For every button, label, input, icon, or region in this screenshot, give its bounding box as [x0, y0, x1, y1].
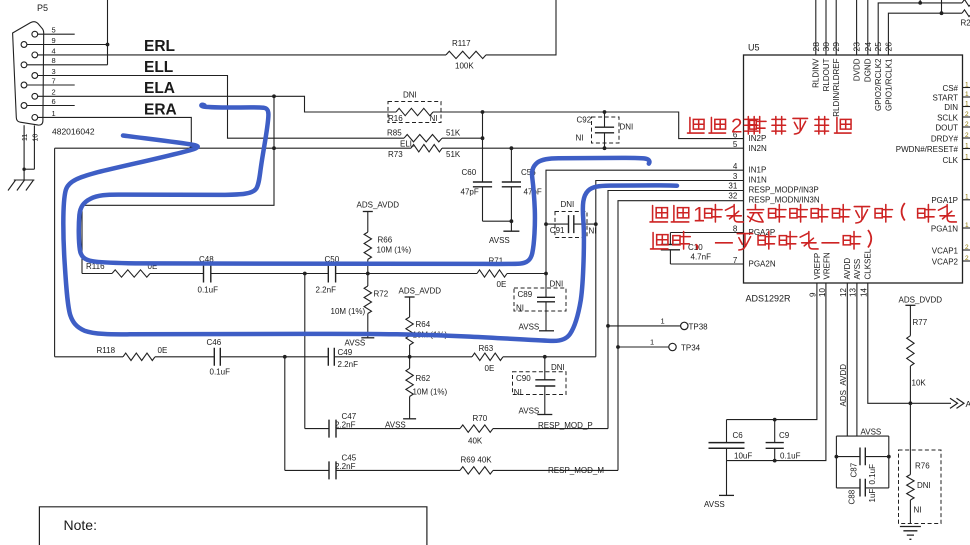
pin 7 stub wire — [27, 84, 75, 86]
junction top-right net2 — [940, 11, 944, 15]
test point TP34 — [618, 346, 669, 348]
wire ELA row (pin2) — [38, 96, 396, 112]
wire row to R63 — [410, 356, 472, 358]
resistor R70 40K — [460, 425, 493, 432]
test point TP38 — [608, 325, 681, 327]
connector pin 7 circle — [21, 82, 27, 88]
svg-text:0E: 0E — [485, 364, 495, 373]
svg-text:C92: C92 — [577, 116, 592, 125]
junction C60/C56 bottom — [510, 219, 514, 223]
svg-text:C90: C90 — [516, 374, 531, 383]
svg-text:DVDD: DVDD — [853, 58, 862, 81]
svg-text:IN1P: IN1P — [749, 166, 767, 175]
svg-text:CLKSEL: CLKSEL — [864, 248, 873, 279]
svg-text:8: 8 — [52, 56, 56, 65]
pin CLK stub wire — [963, 159, 970, 161]
red annotation line 2 — [650, 206, 667, 222]
connector pin 4 circle — [32, 52, 38, 58]
svg-text:R76: R76 — [915, 462, 930, 471]
svg-text:C89: C89 — [518, 290, 533, 299]
svg-text:47pF: 47pF — [461, 188, 479, 197]
wire long row to IN2N — [55, 147, 411, 149]
pin 29 RLDIN/RLDREF wire — [835, 0, 837, 55]
svg-text:GPIO1/RCLK1: GPIO1/RCLK1 — [884, 58, 893, 111]
pin 28 RLDINV wire — [815, 0, 817, 55]
svg-text:R69 40K: R69 40K — [461, 456, 493, 465]
svg-text:4: 4 — [733, 162, 738, 171]
svg-text:C6: C6 — [733, 431, 744, 440]
junction C9 top — [773, 418, 777, 422]
resistor R116 0E — [112, 270, 150, 277]
svg-text:1: 1 — [965, 142, 969, 149]
svg-text:25: 25 — [873, 42, 883, 52]
svg-text:NI: NI — [514, 388, 522, 397]
connector pin 3 circle — [32, 73, 38, 79]
svg-text:5: 5 — [52, 26, 56, 35]
wire ERL row (pin4 to R117) — [38, 54, 446, 56]
svg-text:482016042: 482016042 — [52, 127, 95, 137]
svg-text:4: 4 — [52, 46, 56, 55]
ground AVSS (C6) — [719, 494, 734, 496]
svg-text:CLK: CLK — [942, 156, 958, 165]
svg-text:U5: U5 — [748, 43, 760, 53]
junction pin9/top-line — [106, 43, 110, 47]
svg-text:24: 24 — [863, 42, 873, 52]
junction R77/CLKSEL — [909, 401, 913, 405]
svg-text:ERA: ERA — [144, 101, 177, 118]
connector pin 9 circle — [21, 42, 27, 48]
resistor R77 10K — [909, 305, 911, 335]
svg-text:2: 2 — [965, 255, 969, 262]
wire CLKSEL net — [868, 283, 951, 403]
capacitor C47 2.2nF — [305, 428, 329, 430]
svg-text:1: 1 — [965, 81, 969, 88]
wire R71 to IN1P vertical — [507, 273, 546, 275]
junction TP34 — [616, 345, 620, 349]
svg-text:DIN: DIN — [944, 103, 958, 112]
svg-text:AVSS: AVSS — [385, 420, 406, 429]
svg-text:C10: C10 — [688, 243, 703, 252]
svg-text:R73: R73 — [388, 150, 403, 159]
off-page arrow — [950, 398, 964, 408]
decoupling network C87/C88 rails — [836, 435, 888, 437]
svg-text:51K: 51K — [446, 150, 461, 159]
svg-text:2: 2 — [731, 115, 742, 138]
svg-text:DNI: DNI — [917, 481, 931, 490]
resistor R71 0E — [477, 270, 507, 277]
wire AVSS pin13 — [856, 283, 858, 436]
capacitor C49 2.2nF — [285, 356, 329, 358]
svg-text:C88: C88 — [847, 489, 856, 504]
svg-text:R72: R72 — [374, 290, 389, 299]
svg-text:VREFN: VREFN — [822, 252, 831, 279]
svg-text:ERL: ERL — [144, 38, 175, 55]
svg-text:2: 2 — [965, 132, 969, 139]
svg-text:A: A — [966, 399, 970, 409]
svg-text:ELL: ELL — [400, 140, 415, 149]
svg-text:AVSS: AVSS — [345, 338, 366, 347]
svg-text:3: 3 — [52, 67, 56, 76]
svg-text:R118: R118 — [97, 346, 116, 355]
connector P5 shell — [13, 22, 44, 125]
svg-text:9: 9 — [808, 292, 817, 297]
resistor R66 10M — [367, 212, 369, 233]
svg-text:51K: 51K — [446, 128, 461, 137]
svg-text:DNI: DNI — [561, 200, 575, 209]
wire R118 row — [55, 356, 123, 358]
svg-text:NI: NI — [516, 304, 524, 313]
capacitor C56 47pF — [510, 148, 512, 182]
capacitor C45 2.2nF — [285, 469, 329, 471]
svg-text:TP38: TP38 — [689, 322, 709, 331]
pin 25 GPIO2/RCLK2 wire — [878, 3, 962, 55]
wire IN1N net — [596, 181, 744, 357]
svg-text:1: 1 — [965, 153, 969, 160]
resistor R118 0E — [123, 353, 155, 360]
junction ground join — [22, 168, 25, 171]
wire RESP_MODN/IN3N net — [618, 201, 744, 471]
svg-text:2.2nF: 2.2nF — [338, 360, 359, 369]
pin DIN stub wire — [963, 106, 970, 108]
svg-text:R70: R70 — [473, 414, 488, 423]
connector pin 5 circle — [32, 31, 38, 37]
junction R66/R72 on row — [366, 272, 370, 276]
capacitor C88 1uF — [836, 487, 888, 489]
svg-text:R77: R77 — [913, 318, 928, 327]
svg-text:ADS1292R: ADS1292R — [746, 294, 792, 304]
svg-text:2.2nF: 2.2nF — [316, 286, 337, 295]
junction row273/C47 vertical — [303, 272, 307, 276]
junction R73row/C56 — [510, 146, 514, 150]
resistor R63 0E — [472, 353, 503, 360]
svg-text:RESP_MOD_M: RESP_MOD_M — [548, 466, 604, 475]
svg-text:NI: NI — [430, 114, 438, 123]
svg-text:IN1N: IN1N — [749, 176, 767, 185]
svg-text:R16: R16 — [388, 114, 403, 123]
svg-text:2: 2 — [965, 121, 969, 128]
wire ELA vertical down — [82, 96, 274, 273]
junction top-right net1 — [918, 1, 922, 5]
pin CS# stub wire — [963, 87, 970, 89]
junction C87 right — [887, 455, 891, 459]
svg-text:13: 13 — [848, 288, 857, 297]
svg-text:12: 12 — [839, 288, 848, 297]
svg-text:28: 28 — [811, 42, 821, 52]
capacitor C6 10uF — [726, 420, 728, 443]
junction R16row/C92 — [603, 110, 607, 114]
svg-text:2: 2 — [965, 111, 969, 118]
svg-text:R63: R63 — [479, 344, 494, 353]
svg-text:100K: 100K — [455, 62, 474, 71]
pin START stub wire — [963, 96, 970, 98]
wire R85 to C60 node — [442, 137, 483, 139]
resistor R73 51K — [411, 145, 442, 152]
svg-text:AVDD: AVDD — [843, 258, 852, 280]
svg-text:1: 1 — [965, 91, 969, 98]
svg-text:RLDIN/RLDREF: RLDIN/RLDREF — [832, 58, 841, 116]
svg-text:ADS_AVDD: ADS_AVDD — [399, 287, 442, 296]
resistor R85 51K — [404, 135, 442, 142]
wire R16 row to IN2P — [433, 112, 744, 139]
svg-text:P5: P5 — [37, 3, 48, 13]
svg-text:ELL: ELL — [144, 59, 173, 76]
pin 26 GPIO1/RCLK1 wire — [888, 13, 962, 55]
svg-text:ADS_AVDD: ADS_AVDD — [357, 201, 400, 210]
svg-text:1: 1 — [52, 109, 56, 118]
dashed DNI box C92 — [592, 117, 620, 143]
pin 8 wire — [27, 64, 108, 66]
red annotation line 3 — [651, 233, 668, 249]
svg-text:RLDINV: RLDINV — [812, 58, 821, 88]
wire C6 to AVSS — [726, 461, 728, 496]
pin VCAP2 stub wire — [963, 260, 970, 262]
svg-text:1: 1 — [650, 338, 654, 347]
dashed DNI box C89 — [514, 288, 566, 311]
dashed DNI box C91 — [555, 212, 587, 238]
ground AVSS (C60/C56) — [503, 230, 519, 232]
svg-text:GPIO2/RCLK2: GPIO2/RCLK2 — [874, 58, 883, 111]
svg-text:C46: C46 — [207, 338, 222, 347]
junction C46/RESP_MOD_M vertical — [283, 355, 287, 359]
junction TP38 — [606, 324, 610, 328]
svg-text:VREFP: VREFP — [813, 253, 822, 280]
chassis ground symbol — [8, 180, 34, 191]
svg-text:0.1uF: 0.1uF — [868, 464, 877, 485]
svg-text:26: 26 — [883, 42, 893, 52]
wire R63 to IN1N vertical — [503, 356, 596, 358]
svg-text:40K: 40K — [468, 437, 483, 446]
capacitor C9 0.1uF — [774, 420, 776, 443]
svg-text:7: 7 — [52, 76, 56, 85]
junction R85/C60 — [481, 136, 485, 140]
svg-text:0.1uF: 0.1uF — [210, 368, 231, 377]
pin DOUT stub wire — [963, 126, 970, 128]
svg-text:DGND: DGND — [864, 58, 873, 82]
svg-text:PGA2N: PGA2N — [749, 259, 776, 268]
svg-text:AVSS: AVSS — [489, 236, 510, 245]
svg-text:DOUT: DOUT — [935, 123, 958, 132]
svg-text:AVSS: AVSS — [519, 406, 540, 415]
pin PGA1N stub wire — [963, 227, 970, 229]
blue marker stroke 1 (big loop) — [63, 136, 677, 341]
svg-text:5: 5 — [733, 140, 738, 149]
svg-text:IN2N: IN2N — [749, 144, 767, 153]
resistor R69 40K — [460, 467, 493, 474]
wire stub from top edge — [941, 0, 943, 13]
wire VREFP net — [727, 283, 817, 420]
svg-text:DNI: DNI — [403, 91, 417, 100]
wire R73 to chip IN2N — [442, 147, 744, 149]
pin 24 DGND wire — [867, 0, 869, 55]
svg-text:10: 10 — [33, 134, 40, 142]
pin DRDY# stub wire — [963, 137, 970, 139]
pin VCAP1 stub wire — [963, 249, 970, 251]
svg-text:10K: 10K — [912, 379, 927, 388]
svg-text:RLDOUT: RLDOUT — [822, 58, 831, 91]
svg-text:0E: 0E — [497, 280, 507, 289]
junction IN1P/C91 — [544, 222, 548, 226]
svg-text:C91: C91 — [550, 226, 565, 235]
wire PGA2P stub — [670, 232, 743, 234]
svg-text:2: 2 — [52, 88, 56, 97]
wire C60 branch vertical — [482, 112, 484, 138]
svg-text:C87: C87 — [849, 462, 858, 477]
junction C9 bottom — [773, 459, 777, 463]
svg-text:R117: R117 — [452, 39, 471, 48]
capacitor C10 4.7nF — [669, 233, 671, 245]
svg-text:PWDN#/RESET#: PWDN#/RESET# — [896, 145, 959, 154]
connector pin 1 circle — [32, 115, 38, 121]
ground AVSS (C90) — [537, 414, 552, 416]
svg-text:1: 1 — [965, 222, 969, 229]
svg-text:ADS_AVDD: ADS_AVDD — [839, 364, 848, 407]
junction R16row/C60 vertical — [481, 110, 485, 114]
svg-text:23: 23 — [852, 42, 862, 52]
wire left column down (ERA net) — [54, 148, 56, 357]
svg-text:1: 1 — [661, 317, 665, 326]
svg-text:0E: 0E — [158, 346, 168, 355]
wire vertical from top edge — [107, 0, 109, 65]
junction ELA tee — [272, 94, 276, 98]
svg-text:C9: C9 — [779, 431, 790, 440]
ground AVSS (R72) — [361, 337, 374, 339]
wire vertical to RESP_MOD_M — [284, 357, 286, 471]
svg-text:R62: R62 — [416, 374, 431, 383]
svg-text:TP34: TP34 — [681, 344, 701, 353]
svg-text:AVSS: AVSS — [704, 500, 725, 509]
svg-text:AVSS: AVSS — [861, 428, 882, 437]
svg-text:PGA1P: PGA1P — [931, 196, 958, 205]
svg-text:VCAP2: VCAP2 — [932, 257, 959, 266]
svg-text:Note:: Note: — [64, 517, 97, 533]
ground AVSS (R62) — [403, 418, 416, 420]
junction C87 left — [835, 455, 839, 459]
svg-text:R66: R66 — [378, 236, 393, 245]
capacitor C91 (DNI) — [546, 223, 569, 225]
wire vertical from row273 to C47 — [304, 274, 306, 429]
svg-text:14: 14 — [859, 288, 868, 297]
resistor R76 (DNI) — [909, 403, 911, 474]
ground symbol (earth) — [900, 527, 921, 540]
svg-text:10M (1%): 10M (1%) — [413, 388, 448, 397]
svg-text:31: 31 — [728, 182, 737, 191]
wire AVDD net — [846, 283, 848, 436]
resistor R72 10M — [367, 274, 369, 287]
svg-text:R85: R85 — [387, 128, 402, 137]
dashed DNI box C90 — [513, 372, 567, 395]
svg-text:29: 29 — [831, 42, 841, 52]
svg-text:ELA: ELA — [144, 80, 175, 97]
wire RESP_MODP/IN3P net — [608, 191, 744, 429]
svg-text:0.1uF: 0.1uF — [198, 286, 219, 295]
svg-text:2.2nF: 2.2nF — [335, 420, 356, 429]
junction R64/R62 on row — [408, 355, 412, 359]
svg-text:1: 1 — [693, 203, 705, 227]
wire cap bottoms join — [483, 220, 512, 222]
pin 5 stub wire — [38, 33, 75, 35]
dashed DNI box R16 — [388, 102, 441, 123]
svg-text:RESP_MODN/IN3N: RESP_MODN/IN3N — [749, 195, 820, 204]
pin 23 DVDD wire — [856, 0, 858, 55]
capacitor C87 0.1uF — [836, 456, 888, 458]
wire ELL row (pin3) — [38, 76, 404, 139]
svg-text:C49: C49 — [338, 348, 353, 357]
svg-text:PGA1N: PGA1N — [931, 224, 958, 233]
pin SCLK stub wire — [963, 116, 970, 118]
junction IN1P/R71 — [544, 272, 548, 276]
svg-text:8: 8 — [733, 225, 738, 234]
junction C91 right — [594, 222, 598, 226]
capacitor C60 47pF — [482, 138, 484, 182]
pin PGA1P stub wire — [963, 199, 970, 201]
wire RESP_MOD_P — [493, 428, 608, 430]
connector pin 6 circle — [21, 103, 27, 109]
wire to AVSS — [510, 221, 512, 231]
svg-text:7: 7 — [733, 256, 738, 265]
pin 6 stub wire — [27, 105, 75, 107]
resistor (clipped, top right) — [962, 0, 970, 6]
svg-text:SCLK: SCLK — [937, 113, 959, 122]
pin PWDN#/RESET# stub wire — [963, 148, 970, 150]
svg-text:AVSS: AVSS — [519, 323, 540, 332]
svg-text:RESP_MODP/IN3P: RESP_MODP/IN3P — [749, 185, 819, 194]
junction C90 tee — [543, 355, 547, 359]
wire PGA2N stub — [670, 263, 743, 265]
capacitor C90 (DNI) — [544, 357, 546, 380]
capacitor C46 0.1uF — [155, 356, 214, 358]
svg-text:10uF: 10uF — [734, 451, 752, 460]
svg-text:DRDY#: DRDY# — [931, 134, 959, 143]
resistor R62 10M — [409, 357, 411, 369]
svg-text:30: 30 — [821, 42, 831, 52]
dashed DNI box R76 — [899, 450, 942, 524]
svg-text:1: 1 — [965, 194, 969, 201]
resistor R117 — [446, 51, 486, 58]
svg-text:ADS_DVDD: ADS_DVDD — [899, 296, 943, 305]
wire to chassis ground — [23, 169, 25, 180]
pin 9 wire to top net — [27, 44, 108, 46]
red annotation line 1 — [687, 117, 704, 133]
svg-text:2: 2 — [965, 244, 969, 251]
svg-text:NI: NI — [914, 506, 922, 515]
svg-text:10M (1%): 10M (1%) — [377, 245, 412, 254]
svg-text:0.1uF: 0.1uF — [780, 451, 801, 460]
svg-text:11: 11 — [22, 134, 29, 141]
svg-text:1uF: 1uF — [868, 489, 877, 503]
svg-text:VCAP1: VCAP1 — [932, 246, 959, 255]
svg-text:6: 6 — [52, 97, 56, 106]
svg-text:IN2P: IN2P — [749, 134, 767, 143]
svg-text:R64: R64 — [416, 320, 431, 329]
blue marker stroke 2 (hairpin) — [79, 105, 650, 264]
svg-text:CS#: CS# — [942, 84, 958, 93]
resistor R64 10M — [409, 297, 411, 317]
op-amp/IC U5 ADS1292R body — [744, 55, 963, 283]
svg-text:AVSS: AVSS — [853, 259, 862, 280]
capacitor C48 0.1uF — [150, 273, 204, 275]
connector pins 11,10 wires — [23, 125, 25, 169]
ground AVSS (C89) — [539, 330, 554, 332]
junction ELA vertical crossing row — [272, 146, 276, 150]
resistor R16 (DNI) — [396, 108, 433, 115]
svg-text:4.7nF: 4.7nF — [691, 252, 712, 261]
pin 30 RLDOUT wire — [825, 0, 827, 55]
wire stub up — [919, 0, 921, 3]
capacitor C92 (DNI) — [604, 112, 606, 127]
svg-text:DNI: DNI — [620, 123, 634, 132]
wire VREFN net — [727, 283, 826, 461]
svg-text:9: 9 — [52, 36, 56, 45]
